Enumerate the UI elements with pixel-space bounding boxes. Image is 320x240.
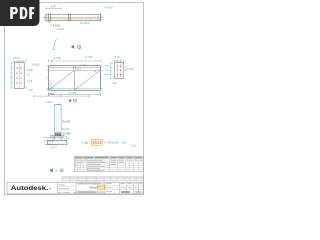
top view beam: label A-505 top right [105,6,113,10]
svg-text:w-501: w-501 [46,100,54,104]
section: small mark below footing [50,145,56,150]
green view marker pair B (lower) [49,169,63,173]
main elevation: bottom chord inner line [49,88,100,90]
svg-text:1-503: 1-503 [75,68,82,72]
svg-text:7A: 7A [93,71,96,74]
svg-text:Dx-903: Dx-903 [62,121,71,124]
svg-text:Autodesk.: Autodesk. [11,185,49,192]
svg-text:A-505: A-505 [26,68,33,72]
section: label right of bolts [63,132,72,135]
section: cyan label below base [66,138,70,140]
left end view: body outline [14,63,24,89]
svg-text:A-505: A-505 [126,67,133,71]
left end view: red bolt rows [16,68,22,83]
revision table: row lines [74,159,143,170]
svg-text:Dx-501: Dx-501 [62,128,70,131]
revision table: column lines [77,156,138,171]
main elevation: diagonal brace left bay [49,71,74,90]
left end view: left dimension line [10,63,13,89]
left end view: bottom-right leader and note [24,86,33,92]
revision table: row text marks [75,160,142,170]
right end view: red bolts [117,66,122,76]
main elevation: mid vertical member [74,70,76,90]
right end view: top dimension text [114,56,125,62]
svg-text:1513: 1513 [92,140,102,145]
main elevation: red top chord line [49,66,100,68]
right end view: bottom label [112,82,118,85]
top view beam: olive inner line [47,18,100,20]
left end view: top dimension text [13,56,27,63]
main elevation: top chord inner line [49,69,100,71]
PDF badge [0,0,40,26]
section: bolt group in column [55,132,60,136]
annotation line: green scale note [131,143,137,147]
main elevation: cyan edge ticks [46,66,102,90]
svg-text:1:10: 1:10 [131,143,137,147]
top view beam: cyan end marks [44,13,103,22]
drawing frame border [5,3,144,195]
svg-text:A-505: A-505 [105,6,113,10]
top view beam: outline [46,15,101,21]
left end view: red label top right [32,62,40,66]
title block: left info cell rows [57,185,87,193]
svg-text:175: 175 [51,5,56,9]
svg-text:25 25: 25 25 [114,56,121,59]
svg-text:1-50: 1-50 [50,147,55,150]
section: footing outline [48,141,67,145]
svg-text:B1: B1 [66,138,70,140]
svg-text:25 25: 25 25 [13,56,20,60]
svg-text:2w-501: 2w-501 [80,21,90,25]
section: column verticals [55,105,62,141]
title block: mini strip above [62,177,143,181]
title block: outer box [7,182,143,194]
left end view: red centerline vertical [18,62,20,90]
svg-text:5-501: 5-501 [48,93,55,96]
revision table: header text marks [75,157,141,159]
title block: column dividers [57,182,138,194]
green view marker pair B (upper) [71,45,81,49]
section: right teal label [81,142,88,145]
svg-text:1-50: 1-50 [112,82,118,85]
main elevation: plate outline [49,66,101,91]
section: column label [46,100,54,104]
top view beam: leader and notes below [48,21,65,31]
annotation line: gray prefix [86,141,89,145]
svg-text:150: 150 [29,89,34,92]
section: cyan hatch above base [52,138,64,140]
svg-text:to: to [86,141,89,145]
top view beam: dimension line 175 [46,5,61,10]
top view beam: cyan label below right half [80,21,90,25]
title block: right info cells [105,184,143,192]
revision table [74,156,143,171]
svg-text:A-505: A-505 [54,56,62,60]
right end view: body outline [115,62,123,78]
svg-text:A-501: A-501 [57,27,65,31]
section: upper labels right of column [62,121,71,132]
title block: Autodesk logo text [11,185,51,192]
top view beam: red centerline [43,16,104,18]
annotation line: orange highlighted 1513 [91,140,102,146]
annotation line: teal spec text [104,141,126,145]
right end view: left dimension line [105,63,113,79]
svg-text:A-505: A-505 [32,62,40,66]
title block: center title cell [76,182,105,194]
top view beam: green stiffener ticks mid [69,14,71,21]
left end view: cyan labels right [26,68,33,83]
svg-text:1513: 1513 [97,186,105,190]
svg-text:1-50: 1-50 [27,79,33,83]
right end view: right label A-505 [125,66,134,72]
right end view: red dashed centerlines [117,62,120,80]
top view beam: green stiffener ticks left [49,13,51,22]
svg-text:7A: 7A [27,73,30,77]
main elevation: diagonal brace right bay [75,71,100,90]
section: base plate lines [50,136,65,137]
svg-text:A-505: A-505 [85,55,93,59]
section: top dimension line [34,93,90,98]
section: left dimension ticks [44,137,55,145]
main elevation: top dimension line [49,55,101,67]
main elevation: bottom dimension line [49,91,103,96]
svg-text:H 50x50x5 - 150: H 50x50x5 - 150 [104,141,126,145]
svg-text:Ex-903: Ex-903 [63,132,72,135]
cyan leader curve to section [52,39,56,50]
main elevation: cyan label inside [75,68,97,74]
green view marker pair B (middle) [68,99,76,102]
svg-text:A-505: A-505 [69,91,77,95]
section: footing hatch [49,141,67,145]
main elevation: cyan corner hatch [49,81,54,90]
